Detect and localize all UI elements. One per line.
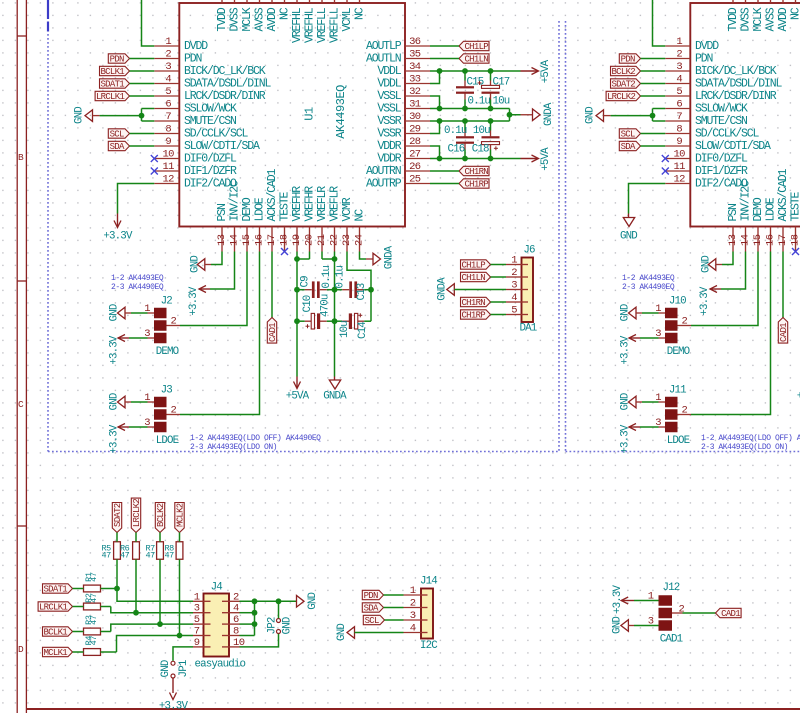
J4 pin 1 stub bbox=[193, 591, 204, 603]
svg-text:LRCLK1: LRCLK1 bbox=[96, 92, 125, 102]
power symbol +3.3V pin 12 bbox=[103, 214, 133, 243]
junction R3 R7 bbox=[157, 621, 163, 627]
svg-text:1-2 AK4493EQ: 1-2 AK4493EQ bbox=[622, 274, 675, 283]
wire J4 pins 4 6 8 bbox=[240, 601, 255, 635]
svg-text:DA1: DA1 bbox=[520, 323, 537, 335]
svg-text:DIF0/DZFL: DIF0/DZFL bbox=[695, 153, 748, 166]
svg-text:11: 11 bbox=[162, 161, 174, 173]
svg-text:VDDR: VDDR bbox=[377, 140, 401, 153]
svg-text:CAD1: CAD1 bbox=[779, 323, 789, 342]
power symbol +3.3V J3 pin 3 bbox=[109, 424, 129, 454]
svg-text:1-2 AK4493EQ(LDO OFF) AK4490EQ: 1-2 AK4493EQ(LDO OFF) AK4490EQ bbox=[701, 434, 800, 443]
note jumper setting bbox=[622, 274, 675, 292]
power symbol +3.3V at J12 pin 1 bbox=[612, 584, 634, 614]
U1 pin 15 DEMO bbox=[241, 197, 254, 251]
svg-text:BCLK2: BCLK2 bbox=[611, 67, 635, 77]
wire J14 pin 2 bbox=[384, 607, 404, 609]
svg-text:CH1LP: CH1LP bbox=[464, 42, 488, 52]
U1 pin 3 BICK/DC_LK/BCK bbox=[154, 61, 265, 78]
connector J3 LDOE jumper bbox=[144, 385, 178, 447]
svg-text:6: 6 bbox=[233, 614, 239, 626]
svg-text:INV/I2C: INV/I2C bbox=[229, 180, 242, 222]
resistor R3 47 bbox=[84, 615, 101, 635]
connector J12 CAD1 jumper bbox=[648, 582, 685, 646]
junction C10 left bbox=[294, 318, 300, 324]
svg-text:SLOW/CDTI/SDA: SLOW/CDTI/SDA bbox=[695, 140, 771, 153]
frame row label D bbox=[18, 644, 24, 655]
junction pin 22 bbox=[332, 256, 338, 262]
svg-text:SDAT1: SDAT1 bbox=[43, 584, 67, 594]
connector J6 DA1 bbox=[520, 244, 537, 334]
junction GNDA bbox=[507, 112, 513, 118]
wire J6 pin 1 bbox=[491, 264, 507, 266]
wire JP2 bottom to pin 10 bbox=[240, 634, 279, 647]
U1 pin 30 VSSR bbox=[377, 111, 430, 128]
junction VDDL b bbox=[462, 68, 468, 74]
svg-text:22: 22 bbox=[329, 234, 341, 246]
svg-text:SDA: SDA bbox=[110, 142, 125, 152]
resistor R2 47 bbox=[84, 593, 101, 610]
U2 pin 2 PDN bbox=[665, 48, 712, 65]
svg-text:VSSR: VSSR bbox=[377, 115, 401, 128]
wire BCLK1 bbox=[130, 70, 155, 72]
wire J10 pin 1 bbox=[642, 312, 665, 314]
wire GND to pins 6 7 bbox=[100, 109, 155, 122]
svg-text:10u: 10u bbox=[493, 96, 510, 108]
svg-text:VDDR: VDDR bbox=[377, 153, 401, 166]
svg-text:24: 24 bbox=[354, 234, 366, 246]
svg-text:5: 5 bbox=[511, 304, 517, 316]
global label BCLK1 input bbox=[43, 627, 73, 638]
U1 pin 25 AOUTRP bbox=[366, 173, 430, 190]
svg-text:25: 25 bbox=[409, 173, 421, 185]
svg-text:GND: GND bbox=[189, 256, 201, 273]
svg-text:DIF0/DZFL: DIF0/DZFL bbox=[184, 153, 237, 166]
U2 pin 10 DIF0/DZFL bbox=[665, 148, 748, 165]
global label CH1LP at J6 bbox=[461, 260, 491, 271]
global label PDN at J14 bbox=[362, 590, 383, 601]
svg-text:13: 13 bbox=[727, 234, 739, 246]
svg-text:2: 2 bbox=[511, 267, 517, 279]
J6 pin 4 stub bbox=[506, 292, 522, 304]
svg-text:VDDL: VDDL bbox=[377, 65, 401, 78]
wire R6 down bbox=[135, 559, 137, 612]
U1 pin 32 VSSL bbox=[377, 86, 430, 103]
junction pin 6 bbox=[252, 621, 258, 627]
global label LRCLK1 input bbox=[38, 602, 72, 613]
svg-text:CH1LP: CH1LP bbox=[461, 260, 485, 270]
wire R2 to J4 pin3 bbox=[101, 607, 194, 613]
svg-text:10: 10 bbox=[162, 148, 174, 160]
svg-text:D: D bbox=[18, 644, 24, 655]
wire J6 pin 5 bbox=[491, 314, 507, 316]
wire SCL bbox=[641, 133, 666, 135]
svg-text:10u: 10u bbox=[339, 321, 351, 338]
svg-text:17: 17 bbox=[266, 234, 278, 246]
U1 pin 13 PSN bbox=[216, 204, 229, 252]
svg-text:4: 4 bbox=[676, 73, 682, 85]
connector J4 easyaudio body bbox=[195, 581, 246, 670]
no-connect pin 18 bbox=[281, 248, 288, 255]
power symbol GNDA bottom bbox=[323, 377, 347, 403]
wire J3 pin 1 bbox=[131, 401, 154, 403]
svg-text:1: 1 bbox=[194, 591, 200, 603]
svg-text:+3.3V: +3.3V bbox=[109, 335, 121, 365]
U2 pin 12 DIF2/CADO bbox=[665, 173, 748, 190]
svg-text:GND: GND bbox=[74, 107, 86, 124]
svg-text:SDATA/DSDL/DINL: SDATA/DSDL/DINL bbox=[695, 78, 783, 91]
power symbol GND J2 pin 1 bbox=[109, 304, 131, 321]
svg-text:C10: C10 bbox=[302, 295, 314, 312]
J14 pin 1 stub bbox=[404, 585, 422, 597]
wire PDN bbox=[641, 58, 666, 60]
svg-text:7: 7 bbox=[676, 111, 682, 123]
U1 pin 29 VSSR bbox=[377, 123, 430, 140]
svg-text:8: 8 bbox=[165, 123, 171, 135]
junction VSSL b bbox=[462, 106, 468, 112]
svg-text:47: 47 bbox=[146, 551, 156, 561]
J4 pin 5 stub bbox=[193, 614, 204, 626]
svg-text:LDOE: LDOE bbox=[254, 197, 267, 221]
svg-text:SCL: SCL bbox=[365, 616, 379, 626]
power symbol GND right of J4 bbox=[297, 592, 320, 609]
svg-text:VCMR: VCMR bbox=[341, 197, 354, 221]
no-connect pin 10 bbox=[662, 155, 669, 162]
J6 pin 2 stub bbox=[506, 267, 522, 279]
svg-text:20: 20 bbox=[304, 234, 316, 246]
junction VSSR c bbox=[488, 118, 494, 124]
svg-text:1-2 AK4493EQ: 1-2 AK4493EQ bbox=[111, 274, 164, 283]
capacitor C10 470u polarized bbox=[297, 294, 335, 329]
wire J11 pin 2 bbox=[678, 414, 692, 416]
svg-text:+3.3V: +3.3V bbox=[699, 286, 711, 316]
wire R3 to J4 pin5 bbox=[101, 624, 194, 631]
U1 pin 34 VDDL bbox=[377, 61, 430, 78]
svg-text:VREFLL: VREFLL bbox=[329, 7, 342, 43]
wire pin 15 DEMO to jumper bbox=[691, 252, 758, 326]
wire J10 pin 3 bbox=[640, 337, 665, 339]
svg-text:+3.3V: +3.3V bbox=[188, 286, 200, 316]
svg-text:VSSL: VSSL bbox=[377, 103, 401, 116]
global label BCLK2 bbox=[611, 66, 641, 77]
svg-text:GNDA: GNDA bbox=[323, 390, 347, 402]
svg-text:8: 8 bbox=[233, 626, 239, 638]
U2 pin 11 DIF1/DZFR bbox=[665, 161, 748, 178]
wire J6 pin 2 bbox=[491, 276, 507, 278]
svg-text:NC: NC bbox=[354, 7, 367, 20]
wire J10 pin 2 bbox=[678, 325, 692, 327]
U2 pin 8 SD/CCLK/SCL bbox=[665, 123, 759, 140]
svg-text:9: 9 bbox=[165, 136, 171, 148]
resistor R6 47 bbox=[120, 542, 139, 561]
wire R1 to J4 pin1 bbox=[101, 589, 194, 602]
wire SDAT1 to R1 bbox=[73, 588, 84, 590]
J4 pin 3 stub bbox=[193, 603, 204, 615]
junction VDDL a bbox=[437, 68, 443, 74]
wire VCMR pin 23 bbox=[347, 252, 371, 290]
svg-text:SMUTE/CSN: SMUTE/CSN bbox=[695, 115, 747, 128]
wire BCLK1 to R3 bbox=[73, 631, 84, 633]
U1 top pin 9 VREFLL bbox=[329, 0, 342, 43]
jumper JP2 bbox=[266, 617, 293, 634]
svg-text:ACKS/CAD1: ACKS/CAD1 bbox=[266, 168, 279, 221]
junction VDDL c bbox=[488, 68, 494, 74]
wire VDDL rail to +5VA bbox=[430, 71, 521, 84]
wire LRCLK1 to R2 bbox=[73, 606, 84, 608]
svg-text:CH1RN: CH1RN bbox=[464, 167, 488, 177]
U1 top pin 0 TVDD bbox=[216, 0, 229, 32]
wire J12 pin 2 bbox=[672, 612, 716, 614]
svg-text:TVDD: TVDD bbox=[216, 7, 229, 31]
U1 pin 23 VCMR bbox=[341, 197, 354, 251]
svg-text:LDOE: LDOE bbox=[156, 435, 179, 447]
resistor R4 47 bbox=[84, 636, 101, 656]
svg-text:C14: C14 bbox=[357, 322, 369, 339]
svg-text:DEMO: DEMO bbox=[156, 346, 179, 358]
svg-text:47: 47 bbox=[89, 636, 99, 646]
svg-text:6: 6 bbox=[676, 98, 682, 110]
wire pin 13 GND bbox=[722, 252, 733, 265]
svg-text:LRCLK2: LRCLK2 bbox=[607, 92, 636, 102]
wire pin 14 +3.3V bbox=[210, 252, 235, 290]
power symbol GND at J12 pin 3 bbox=[612, 617, 634, 634]
wire J14 pin 3 bbox=[385, 619, 404, 621]
U2 pin 9 SLOW/CDTI/SDA bbox=[665, 136, 771, 153]
svg-text:SSLOW/WCK: SSLOW/WCK bbox=[184, 103, 237, 116]
svg-text:SLOW/CDTI/SDA: SLOW/CDTI/SDA bbox=[184, 140, 260, 153]
global label MCLK1 input bbox=[43, 647, 73, 658]
svg-text:C16: C16 bbox=[448, 144, 465, 156]
U2 pin 14 INV/I2C bbox=[740, 180, 753, 252]
junction GND rail b bbox=[276, 598, 282, 604]
wire R5 down bbox=[116, 559, 118, 588]
svg-text:3: 3 bbox=[511, 279, 517, 291]
svg-text:DIF1/DZFR: DIF1/DZFR bbox=[695, 165, 748, 178]
svg-text:1: 1 bbox=[511, 254, 517, 266]
svg-text:17: 17 bbox=[777, 234, 789, 246]
svg-text:21: 21 bbox=[316, 234, 328, 246]
wire pin 17 to CAD1 bbox=[782, 252, 784, 318]
svg-text:+3.3V: +3.3V bbox=[620, 424, 632, 454]
junction VDDR c bbox=[488, 156, 494, 162]
svg-text:2-3 AK4493EQ(LDO ON): 2-3 AK4493EQ(LDO ON) bbox=[701, 443, 788, 452]
wire AOUTRP bbox=[430, 183, 459, 185]
U1 top pin 3 AVSS bbox=[254, 0, 267, 32]
svg-text:47: 47 bbox=[120, 551, 130, 561]
svg-text:CH1RP: CH1RP bbox=[461, 310, 485, 320]
wire PDN bbox=[130, 58, 155, 60]
svg-text:2-3 AK4493EQ(LDO ON): 2-3 AK4493EQ(LDO ON) bbox=[190, 443, 277, 452]
wire pin 12 DIF2 bbox=[629, 184, 666, 214]
svg-text:SDA: SDA bbox=[621, 142, 636, 152]
svg-text:MCLK1: MCLK1 bbox=[43, 648, 67, 658]
global label CH1RP bbox=[459, 179, 489, 190]
svg-text:BICK/DC_LK/BCK: BICK/DC_LK/BCK bbox=[184, 65, 266, 78]
wire JP2 top bbox=[278, 601, 280, 618]
svg-text:LRCLK1: LRCLK1 bbox=[39, 602, 68, 612]
wire mid column bbox=[334, 259, 336, 377]
svg-text:2: 2 bbox=[233, 591, 239, 603]
J4 pin 4 stub bbox=[229, 603, 240, 615]
svg-text:9: 9 bbox=[194, 637, 200, 649]
svg-text:18: 18 bbox=[790, 234, 800, 246]
junction R2 R6 bbox=[133, 610, 139, 616]
svg-text:4: 4 bbox=[410, 623, 416, 635]
svg-text:VREFHR: VREFHR bbox=[304, 186, 317, 222]
svg-text:GNDA: GNDA bbox=[543, 102, 555, 126]
wire pin 16 LDOE to jumper bbox=[691, 252, 771, 415]
global label LRCLK2 bbox=[606, 91, 640, 102]
U2 top pin 4 AVDD bbox=[777, 0, 790, 32]
global label SDAT2 bbox=[611, 79, 641, 90]
global label SDAT1 input bbox=[43, 584, 73, 595]
global label BCLK2 vertical bbox=[155, 503, 166, 533]
sheet frame bottom border bbox=[26, 708, 800, 710]
U2 pin 17 ACKS/CAD1 bbox=[777, 168, 790, 251]
wire R7 down bbox=[159, 559, 161, 624]
power symbol GND at pins 6-7 bbox=[74, 107, 100, 124]
U2 pin 16 LDOE bbox=[765, 197, 778, 251]
dashed region box right bbox=[566, 21, 800, 452]
svg-text:U1: U1 bbox=[303, 107, 317, 121]
wire J12 pin 3 bbox=[634, 625, 659, 627]
global label CH1LN bbox=[459, 54, 489, 65]
svg-text:NC: NC bbox=[279, 7, 292, 20]
wire DVDD from top bbox=[142, 0, 155, 46]
svg-text:+3.3V: +3.3V bbox=[612, 584, 624, 614]
svg-text:GND: GND bbox=[700, 256, 712, 273]
wire VREFLR pins 21 22 bbox=[322, 252, 335, 260]
svg-text:AOUTLP: AOUTLP bbox=[366, 40, 402, 53]
resistor R8 47 bbox=[165, 542, 183, 561]
svg-text:NC: NC bbox=[790, 7, 800, 20]
global label CH1RN bbox=[459, 166, 489, 177]
U1 pin 14 INV/I2C bbox=[229, 180, 242, 252]
capacitor C16 0.1u bbox=[444, 121, 474, 159]
svg-text:C: C bbox=[18, 399, 24, 410]
resistor R5 47 bbox=[102, 542, 121, 561]
U1 pin 20 VREFHR bbox=[304, 186, 317, 252]
U1 pin 10 DIF0/DZFL bbox=[154, 148, 237, 165]
svg-text:35: 35 bbox=[409, 48, 421, 60]
wire AOUTLP bbox=[430, 45, 459, 47]
wire J11 pin 1 bbox=[642, 401, 665, 403]
wire SDAT1 bbox=[130, 83, 155, 85]
U2 top pin 0 TVDD bbox=[727, 0, 740, 32]
capacitor C15 0.1u bbox=[456, 71, 490, 109]
svg-text:DEMO: DEMO bbox=[752, 197, 765, 221]
wire J6 pin 4 bbox=[491, 301, 507, 303]
note LDOE setting bbox=[190, 434, 321, 452]
svg-text:19: 19 bbox=[291, 234, 303, 246]
J4 pin 7 stub bbox=[193, 626, 204, 638]
wire SCL bbox=[130, 133, 155, 135]
U2 pin 18 TESTE bbox=[790, 191, 800, 251]
global label CH1LN at J6 bbox=[461, 272, 491, 283]
svg-text:SDAT2: SDAT2 bbox=[113, 503, 123, 527]
global label CH1RP at J6 bbox=[461, 310, 491, 321]
svg-text:SCL: SCL bbox=[110, 129, 124, 139]
sheet frame left border bbox=[17, 0, 26, 713]
svg-text:DVDD: DVDD bbox=[695, 40, 719, 53]
power symbol +3.3V pin 14 bbox=[188, 286, 210, 316]
svg-text:CAD1: CAD1 bbox=[721, 609, 740, 619]
global label SCL bbox=[108, 129, 129, 140]
svg-text:DVSS: DVSS bbox=[740, 7, 753, 31]
svg-text:VREFLR: VREFLR bbox=[316, 186, 329, 222]
J4 pin 8 stub bbox=[229, 626, 240, 638]
frame row label C bbox=[18, 399, 24, 410]
wire J2 pin 1 bbox=[131, 312, 154, 314]
DAC IC U2 AK4493EQ body bbox=[690, 3, 800, 227]
svg-text:26: 26 bbox=[409, 161, 421, 173]
J4 pin 10 stub bbox=[229, 637, 245, 649]
U1 pin 12 DIF2/CADO bbox=[154, 173, 237, 190]
svg-text:SSLOW/WCK: SSLOW/WCK bbox=[695, 103, 748, 116]
svg-text:JP2: JP2 bbox=[266, 617, 278, 634]
svg-text:2: 2 bbox=[410, 598, 416, 610]
U2 pin 1 DVDD bbox=[665, 36, 719, 53]
svg-text:23: 23 bbox=[341, 234, 353, 246]
global label SCL at J14 bbox=[363, 615, 384, 626]
J6 pin 5 stub bbox=[506, 304, 522, 316]
J4 pin 6 stub bbox=[229, 614, 240, 626]
svg-text:+5VA: +5VA bbox=[286, 390, 310, 402]
junction VDDR b bbox=[462, 156, 468, 162]
svg-text:2: 2 bbox=[165, 48, 171, 60]
wire JP1 top to pin 9 bbox=[173, 647, 193, 661]
U1 pin 6 SSLOW/WCK bbox=[154, 98, 237, 115]
svg-text:0.1u: 0.1u bbox=[444, 125, 467, 137]
svg-text:3: 3 bbox=[165, 61, 171, 73]
wire SDAT2 to R5 bbox=[116, 533, 118, 542]
U1 top pin 10 VCML bbox=[341, 0, 354, 32]
wire GND to pins 6 7 bbox=[611, 109, 666, 122]
power symbol GNDA at J6 pin 3 bbox=[436, 277, 454, 301]
svg-text:3: 3 bbox=[410, 610, 416, 622]
svg-text:LRCK/DSDR/DINR: LRCK/DSDR/DINR bbox=[695, 90, 777, 103]
svg-text:GND: GND bbox=[160, 660, 172, 677]
svg-text:C9: C9 bbox=[300, 276, 312, 288]
svg-text:11: 11 bbox=[673, 161, 685, 173]
wire J11 pin 3 bbox=[640, 426, 665, 428]
svg-text:PDN: PDN bbox=[364, 591, 378, 601]
wire pin 14 +3.3V bbox=[721, 252, 746, 290]
global label PDN bbox=[619, 54, 640, 65]
svg-text:5: 5 bbox=[194, 614, 200, 626]
J4 pin 2 stub bbox=[229, 591, 240, 603]
U1 pin 7 SMUTE/CSN bbox=[154, 111, 236, 128]
svg-text:1: 1 bbox=[410, 585, 416, 597]
U1 pin 1 DVDD bbox=[154, 36, 208, 53]
svg-text:15: 15 bbox=[752, 234, 764, 246]
svg-text:47: 47 bbox=[89, 593, 99, 603]
svg-text:0.1u: 0.1u bbox=[321, 266, 333, 289]
global label LRCLK1 bbox=[95, 91, 129, 102]
U2 top pin 3 AVSS bbox=[765, 0, 778, 32]
J6 pin 1 stub bbox=[506, 254, 522, 266]
svg-text:SDAT1: SDAT1 bbox=[100, 79, 124, 89]
svg-text:1-2 AK4493EQ(LDO OFF) AK4490EQ: 1-2 AK4493EQ(LDO OFF) AK4490EQ bbox=[190, 434, 321, 443]
svg-text:33: 33 bbox=[409, 73, 421, 85]
svg-text:5: 5 bbox=[165, 86, 171, 98]
U2 top pin 1 DVSS bbox=[740, 0, 753, 32]
wire GNDA mid bbox=[510, 109, 521, 122]
svg-text:2-3 AK4490EQ: 2-3 AK4490EQ bbox=[622, 283, 675, 292]
svg-text:J14: J14 bbox=[420, 575, 437, 587]
wire SDAT2 bbox=[641, 83, 666, 85]
U2 pin 13 PSN bbox=[727, 204, 740, 252]
